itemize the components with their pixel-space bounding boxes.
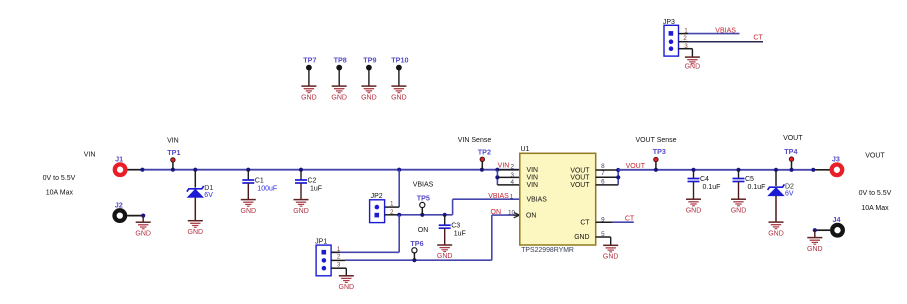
svg-text:0.1uF: 0.1uF: [703, 184, 721, 191]
svg-text:VBIAS: VBIAS: [527, 197, 548, 204]
svg-text:VOUT: VOUT: [570, 175, 590, 182]
svg-text:VBIAS: VBIAS: [413, 181, 434, 188]
svg-text:TP6: TP6: [410, 239, 423, 248]
svg-text:TP5: TP5: [417, 193, 430, 202]
svg-text:J2: J2: [115, 200, 123, 209]
svg-text:10: 10: [508, 210, 516, 217]
svg-text:TP8: TP8: [334, 56, 347, 65]
svg-text:0.1uF: 0.1uF: [748, 184, 766, 191]
svg-text:1: 1: [510, 194, 514, 201]
svg-text:VIN: VIN: [167, 137, 179, 144]
svg-text:VIN: VIN: [84, 152, 96, 159]
svg-text:GND: GND: [391, 94, 407, 101]
svg-text:TP2: TP2: [478, 147, 491, 156]
svg-text:GND: GND: [339, 284, 355, 291]
svg-text:VBIAS: VBIAS: [715, 28, 736, 35]
svg-text:GND: GND: [188, 229, 204, 236]
svg-text:GND: GND: [361, 94, 377, 101]
svg-text:TP3: TP3: [653, 147, 666, 156]
svg-text:VOUT Sense: VOUT Sense: [635, 137, 676, 144]
svg-text:7: 7: [601, 170, 605, 177]
svg-text:VIN: VIN: [527, 167, 539, 174]
svg-text:4: 4: [511, 179, 515, 186]
svg-text:TPS22998RYMR: TPS22998RYMR: [521, 247, 574, 254]
svg-text:VIN Sense: VIN Sense: [458, 137, 492, 144]
svg-text:GND: GND: [685, 64, 701, 71]
svg-text:TP1: TP1: [167, 148, 180, 157]
svg-text:TP9: TP9: [363, 56, 376, 65]
svg-text:GND: GND: [807, 246, 823, 253]
svg-text:CT: CT: [753, 34, 763, 41]
svg-text:C3: C3: [451, 223, 460, 230]
svg-text:GND: GND: [437, 253, 453, 260]
svg-text:3: 3: [337, 261, 341, 268]
svg-text:VIN: VIN: [498, 163, 510, 170]
svg-text:2: 2: [511, 164, 515, 171]
svg-text:VIN: VIN: [527, 175, 539, 182]
svg-text:VOUT: VOUT: [570, 167, 590, 174]
svg-text:CT: CT: [580, 220, 590, 227]
svg-text:GND: GND: [135, 230, 151, 237]
svg-text:2: 2: [683, 35, 687, 42]
svg-text:CT: CT: [625, 216, 635, 223]
svg-text:3: 3: [511, 172, 515, 179]
svg-text:VOUT: VOUT: [626, 163, 646, 170]
svg-text:J3: J3: [832, 155, 840, 164]
svg-text:100uF: 100uF: [257, 185, 277, 192]
svg-text:TP7: TP7: [303, 56, 316, 65]
svg-text:GND: GND: [574, 234, 589, 241]
svg-text:VOUT: VOUT: [570, 182, 590, 189]
svg-text:U1: U1: [521, 146, 530, 153]
svg-text:VIN: VIN: [527, 182, 539, 189]
svg-text:6V: 6V: [204, 192, 213, 199]
svg-text:5: 5: [601, 231, 605, 238]
svg-text:9: 9: [601, 217, 605, 224]
svg-text:JP3: JP3: [663, 19, 675, 26]
svg-text:VBIAS: VBIAS: [488, 193, 509, 200]
svg-text:1: 1: [390, 201, 394, 208]
svg-text:ON: ON: [491, 209, 502, 216]
svg-text:C5: C5: [745, 176, 754, 183]
svg-text:JP1: JP1: [315, 239, 327, 246]
svg-text:C2: C2: [308, 177, 317, 184]
svg-text:GND: GND: [293, 208, 309, 215]
svg-text:0V to 5.5V: 0V to 5.5V: [43, 175, 76, 182]
svg-text:GND: GND: [241, 208, 257, 215]
svg-text:10A Max: 10A Max: [861, 205, 889, 212]
svg-text:8: 8: [601, 163, 605, 170]
svg-text:1uF: 1uF: [454, 231, 466, 238]
svg-text:JP2: JP2: [371, 193, 383, 200]
svg-text:VOUT: VOUT: [783, 135, 803, 142]
svg-text:6: 6: [601, 178, 605, 185]
svg-text:GND: GND: [301, 94, 317, 101]
svg-text:6V: 6V: [785, 190, 794, 197]
svg-text:GND: GND: [331, 94, 347, 101]
svg-text:C4: C4: [700, 176, 709, 183]
svg-text:GND: GND: [768, 230, 784, 237]
svg-text:J1: J1: [115, 155, 123, 164]
svg-text:GND: GND: [686, 207, 702, 214]
svg-text:TP4: TP4: [784, 147, 797, 156]
svg-text:TP10: TP10: [391, 56, 408, 65]
svg-text:0V to 5.5V: 0V to 5.5V: [859, 190, 892, 197]
svg-text:J4: J4: [833, 215, 841, 224]
svg-text:C1: C1: [255, 177, 264, 184]
svg-text:10A Max: 10A Max: [46, 190, 74, 197]
svg-text:ON: ON: [418, 227, 429, 234]
svg-text:GND: GND: [731, 207, 747, 214]
svg-text:1uF: 1uF: [310, 185, 322, 192]
svg-text:ON: ON: [526, 212, 536, 219]
svg-text:GND: GND: [603, 254, 619, 261]
svg-text:VOUT: VOUT: [865, 153, 885, 160]
